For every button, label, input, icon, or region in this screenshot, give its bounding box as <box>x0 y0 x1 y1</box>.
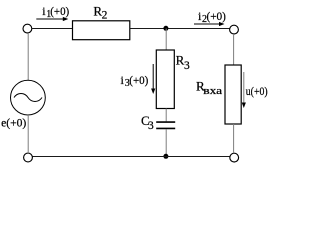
svg-text:3: 3 <box>184 60 190 72</box>
label Rvx <box>196 79 223 97</box>
arrow u <box>242 72 246 108</box>
wire top-left terminal down to source <box>27 33 29 81</box>
wire C3 to bottom <box>165 129 167 156</box>
svg-text:2: 2 <box>102 10 108 22</box>
label R3 <box>176 52 190 72</box>
label C3 <box>141 113 154 132</box>
label R2 <box>93 3 107 21</box>
resistor Rvx <box>225 65 241 124</box>
wire source down to bottom-left terminal <box>27 115 29 153</box>
wire R3 to C3 <box>165 109 167 122</box>
label i2(+0) <box>198 9 226 25</box>
svg-text:(+0): (+0) <box>50 4 69 18</box>
junction node top <box>163 26 168 31</box>
capacitor C3 <box>156 122 175 128</box>
junction node bottom <box>163 154 168 159</box>
arrow i3 <box>151 64 155 94</box>
wire Rvx box down to bottom-right terminal <box>233 124 235 153</box>
resistor R2 <box>73 21 130 40</box>
svg-text:(+0): (+0) <box>207 9 226 23</box>
arrow i2 <box>194 22 225 26</box>
label i1(+0) <box>42 4 69 20</box>
label i3(+0) <box>121 73 149 89</box>
wire top-right terminal down to Rvx box <box>233 34 235 65</box>
node terminal top-right <box>230 25 239 34</box>
wire bottom <box>32 156 230 158</box>
wire R2 to top-right terminal <box>130 28 230 30</box>
node terminal bottom-right <box>230 153 239 162</box>
source e <box>11 80 46 115</box>
svg-text:3: 3 <box>148 120 154 132</box>
svg-text:u(+0): u(+0) <box>246 84 268 98</box>
node terminal top-left <box>23 24 32 33</box>
svg-text:вха: вха <box>203 86 223 97</box>
node terminal bottom-left <box>24 153 33 162</box>
wire top-left to R2 <box>32 28 73 30</box>
resistor R3 <box>156 50 174 109</box>
svg-text:e(+0): e(+0) <box>1 116 26 130</box>
wire junction down to R3 <box>165 29 167 51</box>
svg-text:(+0): (+0) <box>129 73 148 87</box>
arrow i1 <box>36 17 68 21</box>
